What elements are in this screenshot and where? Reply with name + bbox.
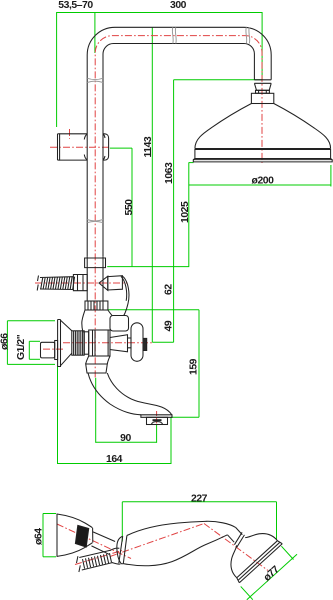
svg-text:49: 49 xyxy=(164,320,175,331)
svg-text:1025: 1025 xyxy=(180,201,191,223)
svg-text:53,5–70: 53,5–70 xyxy=(58,0,93,11)
svg-text:62: 62 xyxy=(164,284,175,295)
svg-text:ø66: ø66 xyxy=(0,333,11,350)
svg-text:ø64: ø64 xyxy=(33,528,44,545)
svg-text:550: 550 xyxy=(124,199,135,216)
svg-text:ø200: ø200 xyxy=(252,176,275,187)
svg-text:227: 227 xyxy=(191,493,208,504)
svg-text:300: 300 xyxy=(170,0,187,11)
svg-text:164: 164 xyxy=(106,454,123,465)
svg-text:159: 159 xyxy=(188,358,199,375)
svg-text:1063: 1063 xyxy=(164,162,175,184)
svg-text:90: 90 xyxy=(120,433,131,444)
svg-text:1143: 1143 xyxy=(143,136,154,157)
svg-text:G1/2": G1/2" xyxy=(16,334,27,360)
